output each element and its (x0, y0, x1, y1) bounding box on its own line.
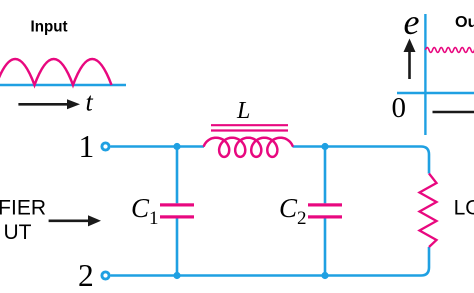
svg-text:e: e (404, 2, 420, 42)
terminal 2 (102, 272, 109, 279)
svg-text:2: 2 (78, 258, 94, 293)
wire: C2 branch upper (324, 147, 327, 204)
svg-text:t: t (86, 88, 94, 117)
junction node top-left (173, 143, 180, 150)
capacitor C1 top plate (160, 203, 194, 206)
svg-text:L: L (236, 98, 250, 124)
input time-axis arrow (18, 103, 68, 106)
svg-text:UT: UT (4, 221, 32, 244)
inductor core line 1 (211, 124, 288, 126)
output graph vertical axis (424, 14, 426, 135)
svg-text:Input: Input (31, 19, 69, 36)
output ripple wave (426, 48, 474, 53)
svg-text:2: 2 (297, 208, 307, 229)
svg-text:LOAD: LOAD (454, 197, 474, 220)
load resistor zigzag (420, 174, 437, 248)
e-axis up arrow (408, 51, 411, 79)
rectifier output arrow (49, 220, 89, 223)
svg-text:1: 1 (149, 208, 159, 229)
svg-text:C: C (279, 193, 298, 223)
wire: top right (coil to right branch, rounded corner) (293, 147, 430, 174)
junction node bottom-left (173, 272, 180, 279)
inductor coil (204, 138, 293, 157)
output graph horizontal axis (397, 92, 474, 94)
capacitor C2 bottom plate (308, 215, 342, 218)
wire: top left (terminal 1 to coil) (111, 145, 205, 148)
svg-text:C: C (131, 193, 150, 223)
output time-axis arrow (clipped) (433, 111, 474, 114)
svg-text:0: 0 (392, 92, 407, 124)
svg-text:1: 1 (79, 129, 95, 164)
svg-text:FIER: FIER (0, 197, 46, 220)
input waveform axis line (0, 84, 126, 86)
terminal 1 (102, 143, 109, 150)
inductor core line 2 (211, 129, 288, 131)
input waveform (rectified sine humps) (0, 59, 112, 85)
capacitor C2 top plate (308, 203, 342, 206)
wire: bottom (terminal 2 to right branch, rounded corner) (111, 247, 430, 276)
junction node top-right (321, 143, 328, 150)
wire: C2 branch lower (324, 219, 327, 276)
capacitor C1 bottom plate (160, 215, 194, 218)
svg-text:Output: Output (455, 14, 474, 31)
wire: C1 branch upper (176, 147, 179, 204)
junction node bottom-right (321, 272, 328, 279)
wire: C1 branch lower (176, 219, 179, 276)
